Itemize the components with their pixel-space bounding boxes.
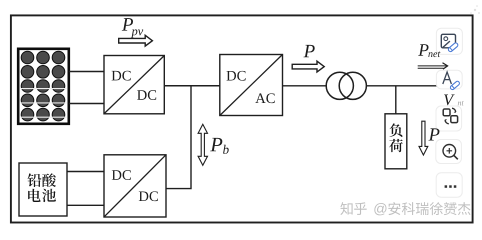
transformer xyxy=(326,72,366,99)
label P_b xyxy=(210,138,229,154)
wire DC/AC to transformer xyxy=(283,85,328,87)
wire PV to DC/DC1 top xyxy=(69,71,104,73)
label V grid xyxy=(444,95,464,106)
label 铅酸电池 xyxy=(28,173,56,202)
label P_pv xyxy=(122,18,143,38)
wire DC bus DC/DC1 to DC/AC xyxy=(164,85,220,87)
wire bus drop to battery converter xyxy=(166,86,191,189)
arrow P_pv xyxy=(119,35,153,46)
arrow P xyxy=(292,61,324,72)
arrow P_b bidirectional xyxy=(198,124,207,165)
arrow P into load xyxy=(419,121,428,155)
label P_net xyxy=(418,44,440,57)
arrow P_net thin xyxy=(418,63,448,69)
DC/DC converter 2 (battery side) xyxy=(104,155,166,217)
watermark 知乎 @安科瑞徐赟杰 xyxy=(340,202,471,216)
scan speckles xyxy=(470,5,480,14)
wire battery to DC/DC2 top xyxy=(67,171,104,173)
toolbar card 1 xyxy=(436,28,462,54)
PV array xyxy=(18,49,69,124)
toolbar card 5 xyxy=(436,173,462,197)
label P (load) xyxy=(429,128,440,140)
icon: more xyxy=(445,185,457,188)
DC/DC converter 1 (PV side) xyxy=(104,56,164,114)
icon: replace/swap xyxy=(443,108,457,124)
load box xyxy=(385,114,407,169)
wire PV to DC/DC1 bottom xyxy=(69,103,104,105)
label P (inverter output) xyxy=(303,45,314,57)
DC/AC inverter xyxy=(220,55,283,116)
wire transformer to grid edge xyxy=(366,85,444,87)
icon: edit text xyxy=(443,72,460,90)
battery box xyxy=(19,163,67,216)
wire battery to DC/DC2 bottom xyxy=(67,204,104,206)
toolbar card 4 xyxy=(436,140,462,164)
icon: edit image xyxy=(441,34,458,52)
toolbar card 3 xyxy=(436,106,462,131)
wire drop to load xyxy=(395,86,397,115)
label 负荷 xyxy=(389,123,403,152)
icon: zoom in xyxy=(443,145,458,160)
toolbar card 2 xyxy=(436,70,462,89)
